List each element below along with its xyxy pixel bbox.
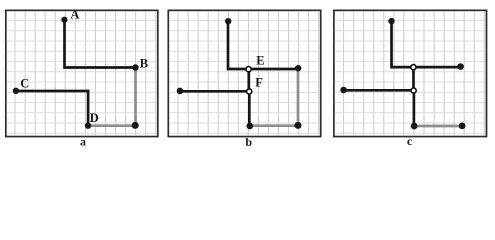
wire right-dot to corner (gray candidate) [297, 68, 300, 125]
svg-text:A: A [70, 7, 79, 21]
node B [132, 64, 138, 70]
wire left dot to lower junction (black) [344, 89, 414, 92]
wire lower junction down to bottom dot (black) [413, 91, 416, 127]
node top (panel c) [388, 18, 394, 24]
node left (panel c) [340, 87, 347, 94]
svg-text:D: D [90, 111, 99, 125]
wire corner-D (gray candidate) [88, 124, 136, 127]
node left (panel b) [177, 88, 184, 95]
svg-text:B: B [140, 56, 148, 70]
wire top dot through upper junction to right dot (black) [392, 21, 461, 67]
svg-text:a: a [80, 134, 86, 148]
panel b frame and grid [168, 10, 320, 136]
svg-text:E: E [256, 54, 264, 68]
node bottom (panel b) [247, 123, 254, 130]
node right (panel c) [457, 63, 464, 70]
junction F (open circle) [247, 89, 252, 94]
wire bottom dot to bottom-right dot (gray candidate) [414, 125, 462, 128]
node top (panel b) [225, 18, 231, 24]
node right (panel b) [295, 65, 301, 71]
upper junction (open circle, panel c) [411, 65, 416, 70]
wire F down to bottom dot (black) [248, 92, 251, 127]
panel c frame and grid [334, 10, 487, 136]
node A [61, 17, 67, 23]
wire top dot through E to right dot (black) [228, 21, 298, 69]
wire C-D (black) [16, 91, 88, 126]
junction E (open circle) [246, 67, 251, 72]
wire left dot to F (black) [180, 90, 249, 93]
svg-text:C: C [20, 76, 29, 90]
junction dot at gray corner (panel b) [295, 122, 302, 129]
node D [85, 123, 91, 129]
junction dot at gray corner [132, 122, 139, 129]
lower junction (open circle, panel c) [411, 88, 416, 93]
node bottom (panel c) [411, 123, 418, 130]
svg-text:F: F [255, 76, 263, 90]
svg-text:c: c [407, 134, 413, 148]
node bottom-right (panel c) [459, 123, 466, 130]
wire E-F vertical (black) [247, 69, 250, 92]
panel a frame and grid [6, 10, 158, 136]
svg-text:b: b [245, 135, 252, 149]
wire corner to bottom dot (gray candidate) [250, 124, 298, 127]
wire B-corner (gray candidate) [134, 68, 137, 126]
node C [13, 88, 19, 94]
wire between junctions (black) [412, 67, 415, 90]
wire A-B (black) [65, 20, 136, 68]
